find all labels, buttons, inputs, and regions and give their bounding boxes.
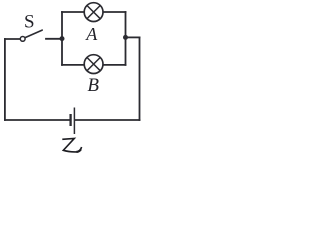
svg-text:S: S [24, 12, 35, 33]
svg-text:B: B [87, 75, 99, 96]
svg-text:A: A [85, 24, 98, 44]
